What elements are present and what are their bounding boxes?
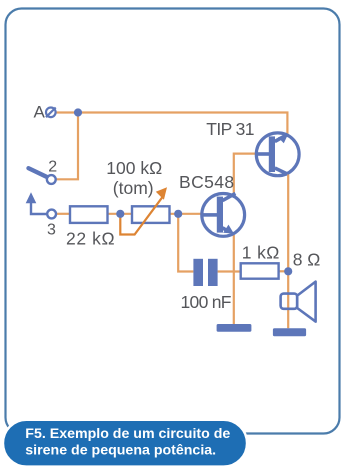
potentiometer wiper wire xyxy=(120,196,163,234)
svg-text:100 kΩ: 100 kΩ xyxy=(106,158,162,178)
speaker LS1 xyxy=(281,282,316,322)
potentiometer 100k box xyxy=(132,206,170,223)
junction node A rail xyxy=(74,108,82,116)
switch contact 2 xyxy=(47,175,56,184)
transistor Q1 BC548 xyxy=(202,193,245,236)
svg-text:2: 2 xyxy=(48,159,57,176)
ground bar G2 xyxy=(273,328,306,336)
node A terminal xyxy=(46,108,56,118)
ground bar G1 xyxy=(217,324,252,332)
caption pill xyxy=(3,420,247,467)
svg-text:A: A xyxy=(34,103,46,122)
capacitor C1 100nF plates xyxy=(193,259,217,286)
wire capacitor C1 to resistor R2 xyxy=(218,270,241,272)
svg-text:1 kΩ: 1 kΩ xyxy=(242,242,280,262)
wire terminal 3 to resistor R1 xyxy=(57,213,71,215)
potentiometer wiper arrowhead xyxy=(156,187,167,200)
wire node B down to capacitor C1 xyxy=(178,214,193,272)
svg-text:TIP 31: TIP 31 xyxy=(206,119,254,139)
svg-text:100 nF: 100 nF xyxy=(181,292,231,312)
wire R1 to potentiometer xyxy=(108,213,133,215)
svg-text:F5. Exemplo de um circuito de: F5. Exemplo de um circuito de xyxy=(25,426,230,442)
svg-text:sirene de pequena potência.: sirene de pequena potência. xyxy=(25,442,216,458)
wire junction A down to switch contact 2 xyxy=(56,113,78,180)
junction node after R1 xyxy=(116,210,124,218)
junction node speaker xyxy=(284,267,292,275)
terminal 3 wire with up arrow xyxy=(31,202,47,214)
junction node after potentiometer xyxy=(174,210,182,218)
wire TIP31 collector down to ground xyxy=(287,175,289,329)
wire top rail from A to TIP31 emitter xyxy=(57,113,288,135)
resistor R1 22k box xyxy=(70,206,108,223)
switch lever xyxy=(29,168,49,177)
transistor Q2 TIP31 xyxy=(256,133,299,176)
wire BC548 emitter to ground xyxy=(233,235,235,324)
resistor R2 1k box xyxy=(241,263,279,278)
svg-text:3: 3 xyxy=(47,222,56,239)
terminal 3 contact xyxy=(47,210,56,219)
terminal 3 arrowhead xyxy=(26,192,37,203)
wire R2 to speaker node xyxy=(279,270,289,272)
svg-text:BC548: BC548 xyxy=(179,172,235,192)
svg-text:(tom): (tom) xyxy=(113,178,154,198)
wire BC548 collector to TIP31 base xyxy=(234,154,257,195)
svg-text:8 Ω: 8 Ω xyxy=(293,250,321,270)
wire potentiometer to BC548 base xyxy=(170,213,203,215)
svg-text:22 kΩ: 22 kΩ xyxy=(66,229,115,249)
